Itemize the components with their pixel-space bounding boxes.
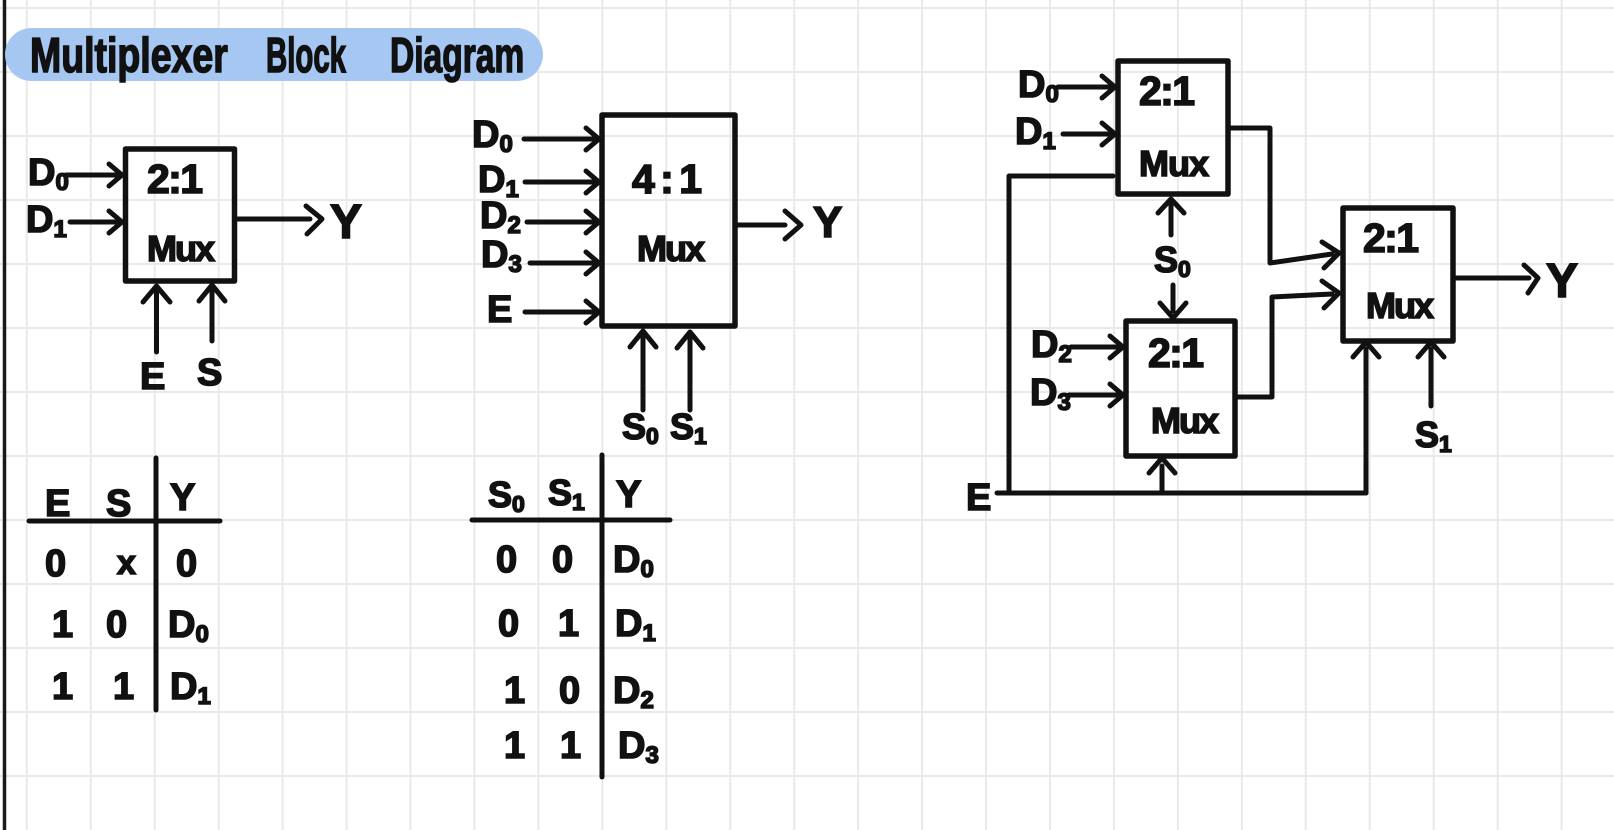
svg-text:0: 0 <box>45 543 66 585</box>
wire D1 to U2 <box>525 171 599 193</box>
svg-text:0: 0 <box>496 539 517 581</box>
wire D0 to U2 <box>524 128 599 150</box>
svg-text:0: 0 <box>559 670 580 712</box>
wire D0 to U1 <box>66 164 122 186</box>
wire S0 into U2 bottom <box>630 331 656 410</box>
svg-text:E: E <box>966 477 991 519</box>
svg-text:Mux: Mux <box>1151 400 1219 441</box>
wire D3 to U4 <box>1069 384 1123 406</box>
wire D2 to U2 <box>527 211 599 233</box>
wire E into U1 bottom <box>143 286 170 352</box>
svg-text:0: 0 <box>498 603 519 645</box>
svg-text:2:1: 2:1 <box>1139 68 1195 114</box>
wire U4 output to U5 lower input <box>1235 281 1339 397</box>
wire U3 output to U5 upper input <box>1228 128 1339 268</box>
svg-text:Multiplexer: Multiplexer <box>30 29 228 83</box>
svg-text:Y: Y <box>1546 255 1578 308</box>
wire S into U1 bottom <box>199 285 225 341</box>
svg-text:Mux: Mux <box>1139 143 1209 184</box>
svg-text:1: 1 <box>558 603 579 645</box>
wire S1 into U5 bottom <box>1418 342 1444 406</box>
title highlight bubble <box>5 28 543 81</box>
svg-text:0: 0 <box>176 543 197 585</box>
svg-text:Y: Y <box>330 196 362 249</box>
wire S1 into U2 bottom <box>677 332 703 410</box>
svg-text:1: 1 <box>504 725 525 767</box>
svg-text:1: 1 <box>52 604 73 646</box>
wire U5 output Y <box>1456 265 1538 293</box>
mux U3 box (2:1 upper right) <box>1118 61 1228 194</box>
wire S0 up into U3 bottom <box>1158 199 1184 235</box>
mux U5 box (2:1 output right) <box>1343 208 1453 341</box>
svg-text:0: 0 <box>106 604 127 646</box>
wire U2 output Y <box>735 211 801 239</box>
svg-text:E: E <box>140 356 165 398</box>
wire D0 to U3 <box>1058 76 1115 98</box>
svg-text:1: 1 <box>113 666 134 708</box>
table T1 vertical line <box>154 458 159 710</box>
wire E branch up to U3 left <box>1009 176 1113 493</box>
svg-text:2:1: 2:1 <box>147 156 203 202</box>
table T2 horizontal line <box>472 518 670 523</box>
svg-text:Diagram: Diagram <box>390 28 524 83</box>
wire E branch up into U5 bottom <box>1353 342 1379 493</box>
wire E to U2 <box>525 301 599 323</box>
svg-text:E: E <box>487 289 512 331</box>
wire D2 to U4 <box>1071 336 1123 358</box>
table T1 horizontal line <box>29 519 220 524</box>
svg-text:Y: Y <box>813 198 842 247</box>
wire D3 to U2 <box>530 252 599 274</box>
svg-text:E: E <box>45 483 70 525</box>
svg-text:0: 0 <box>552 539 573 581</box>
svg-text:Block: Block <box>266 27 346 83</box>
wire E branch up into U4 bottom <box>1149 458 1175 493</box>
wire E horizontal run <box>997 491 1366 496</box>
wire D1 to U3 <box>1063 123 1115 145</box>
page left border line <box>3 0 7 830</box>
svg-text:Mux: Mux <box>147 228 215 269</box>
mux U1 box (2:1) <box>126 149 235 281</box>
svg-text:S: S <box>106 483 131 525</box>
svg-text:Mux: Mux <box>637 228 705 269</box>
wire D1 to U1 <box>70 211 122 233</box>
wire U1 output Y <box>235 206 322 234</box>
svg-text:2:1: 2:1 <box>1148 330 1204 376</box>
svg-text:Mux: Mux <box>1366 285 1434 326</box>
svg-text:Y: Y <box>170 477 195 519</box>
svg-text:S: S <box>197 352 222 394</box>
table T2 vertical line <box>600 455 605 777</box>
svg-text:1: 1 <box>504 670 525 712</box>
svg-text:1: 1 <box>52 666 73 708</box>
svg-text:x: x <box>117 544 136 582</box>
mux U2 box (4:1) <box>602 115 735 326</box>
svg-text:Y: Y <box>616 474 641 516</box>
svg-text:1: 1 <box>560 725 581 767</box>
wire S0 down into U4 top <box>1160 285 1186 318</box>
mux U4 box (2:1 lower right) <box>1126 321 1235 456</box>
svg-text:2:1: 2:1 <box>1363 215 1419 261</box>
svg-text:4:1: 4:1 <box>632 156 702 202</box>
